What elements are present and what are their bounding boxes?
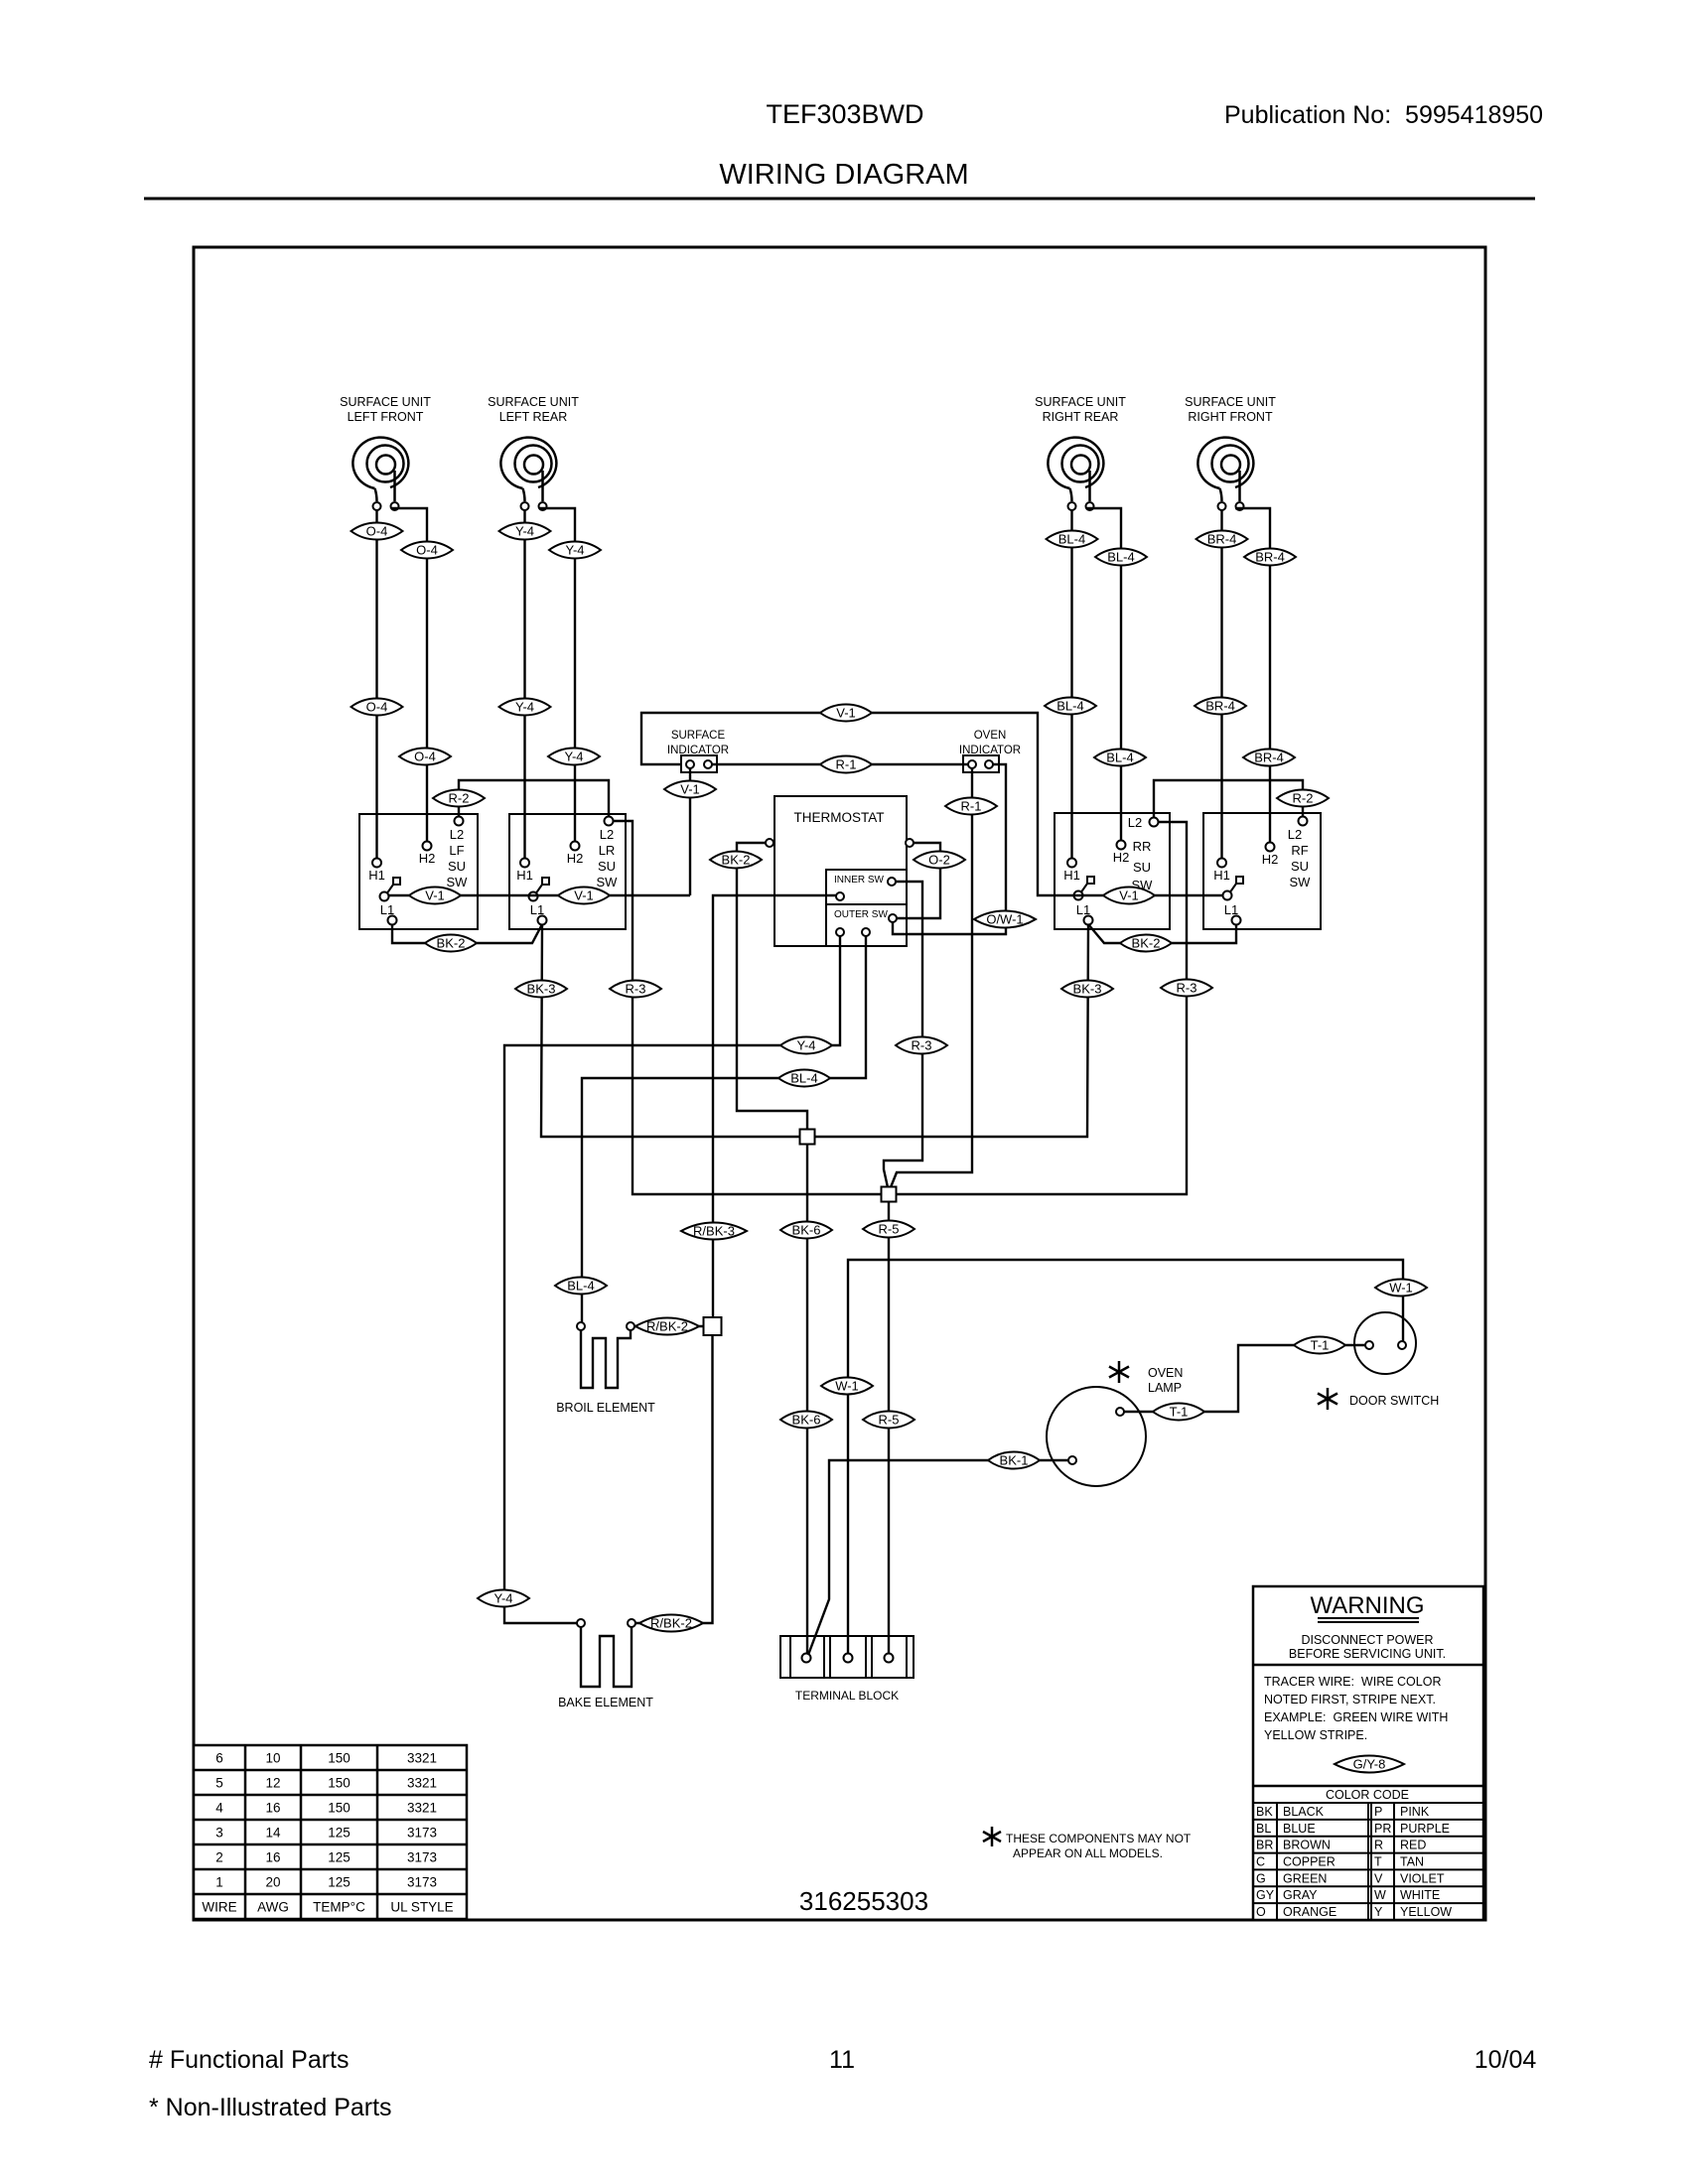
wire label O-4 (LF H1 lower): [352, 698, 403, 715]
svg-text:SU: SU: [1133, 860, 1151, 875]
terminal L2 of RR switch: [1150, 818, 1159, 827]
svg-text:WIRING DIAGRAM: WIRING DIAGRAM: [719, 159, 968, 191]
svg-text:16: 16: [265, 1801, 280, 1816]
svg-text:# Functional Parts: # Functional Parts: [149, 2046, 350, 2074]
wire BK-6 (junction 1 to terminal block): [806, 1144, 808, 1654]
svg-text:150: 150: [328, 1801, 351, 1816]
note asterisk: [983, 1827, 1001, 1846]
terminal oven indicator right: [985, 760, 993, 768]
svg-text:NOTED FIRST, STRIPE NEXT.: NOTED FIRST, STRIPE NEXT.: [1264, 1693, 1436, 1706]
svg-text:16: 16: [265, 1850, 280, 1865]
svg-text:LR: LR: [599, 843, 616, 858]
wire V-1 left run (LF arm to LR arm to SI drop): [388, 894, 690, 896]
terminal H1 of RR switch: [1067, 859, 1076, 868]
svg-text:BK-3: BK-3: [527, 982, 556, 997]
svg-text:SW: SW: [447, 875, 469, 889]
svg-text:BR-4: BR-4: [1205, 699, 1235, 714]
svg-text:DISCONNECT POWER: DISCONNECT POWER: [1301, 1633, 1433, 1647]
wire label Y-4 (LR H1 lower): [499, 698, 551, 715]
terminal H1 of LF switch: [372, 859, 381, 868]
svg-text:H2: H2: [1113, 850, 1130, 865]
svg-text:WHITE: WHITE: [1400, 1888, 1440, 1902]
svg-text:3321: 3321: [407, 1776, 437, 1791]
svg-text:H2: H2: [567, 851, 584, 866]
thermostat box: [774, 796, 907, 946]
svg-text:T: T: [1374, 1855, 1382, 1869]
svg-text:10/04: 10/04: [1475, 2046, 1537, 2074]
svg-text:LF: LF: [449, 843, 464, 858]
wire R-5 (junction 2 to terminal block): [888, 1202, 890, 1654]
svg-text:* Non-Illustrated Parts: * Non-Illustrated Parts: [149, 2094, 392, 2121]
svg-text:3321: 3321: [407, 1751, 437, 1766]
wire R-1 (surface ind to oven ind): [712, 763, 968, 765]
wire RF H2 lead: [1235, 508, 1270, 843]
svg-text:SW: SW: [1290, 875, 1312, 889]
svg-text:R-5: R-5: [879, 1413, 900, 1428]
switch arm pivot LR: [529, 878, 550, 901]
svg-text:V-1: V-1: [1119, 888, 1139, 903]
svg-text:SURFACE UNIT: SURFACE UNIT: [1035, 395, 1126, 409]
svg-text:150: 150: [328, 1776, 351, 1791]
svg-text:H1: H1: [1213, 868, 1230, 883]
wire BK-3 left (L1 LR down): [541, 924, 800, 1137]
wire label R/BK-3: [681, 1222, 747, 1239]
svg-text:RIGHT REAR: RIGHT REAR: [1043, 410, 1119, 424]
wire label T-1 to door switch: [1294, 1336, 1345, 1353]
svg-text:L2: L2: [600, 827, 614, 842]
svg-text:Y-4: Y-4: [565, 543, 584, 558]
junction square 1: [800, 1130, 815, 1145]
svg-text:BL-4: BL-4: [790, 1071, 817, 1086]
terminal door switch left: [1365, 1341, 1373, 1349]
svg-text:BK: BK: [1256, 1805, 1273, 1819]
wire label BL-4 (RR H1 lower): [1045, 697, 1096, 714]
svg-text:V-1: V-1: [574, 888, 594, 903]
svg-text:BK-6: BK-6: [792, 1223, 821, 1238]
svg-text:R-5: R-5: [879, 1222, 900, 1237]
terminal inner sw right: [888, 878, 896, 886]
terminal block terminal 1: [802, 1654, 811, 1663]
terminal L2 of LF switch: [455, 817, 464, 826]
svg-text:O-4: O-4: [366, 700, 388, 715]
svg-text:Y-4: Y-4: [515, 524, 534, 539]
svg-text:R-1: R-1: [961, 799, 982, 814]
switch LF SU SW box: [359, 814, 478, 929]
surface indicator box: [681, 755, 717, 772]
wire label R/BK-2 upper: [635, 1318, 699, 1335]
svg-text:Y-4: Y-4: [564, 750, 583, 764]
surface unit right rear coil: [1035, 395, 1126, 510]
svg-text:L1: L1: [530, 902, 544, 917]
terminal H2 of RR switch: [1117, 841, 1126, 850]
junction square 2: [882, 1187, 897, 1202]
title rule line: [144, 198, 1535, 201]
svg-text:BL-4: BL-4: [567, 1279, 594, 1294]
bake element: [581, 1627, 632, 1687]
svg-text:3173: 3173: [407, 1850, 437, 1865]
wire label O/W-1: [974, 911, 1036, 928]
svg-text:BK-3: BK-3: [1073, 982, 1102, 997]
wire label BK-6 upper: [780, 1221, 832, 1238]
terminal block terminal 3: [885, 1654, 894, 1663]
terminal inner sw left: [836, 892, 844, 900]
wire label R-1 horizontal: [820, 755, 872, 772]
svg-text:BL-4: BL-4: [1107, 550, 1134, 565]
svg-text:BLUE: BLUE: [1283, 1822, 1316, 1836]
terminal broil right: [627, 1322, 634, 1330]
wire inner sw to junction 2: [884, 882, 922, 1187]
svg-text:3: 3: [215, 1826, 223, 1841]
svg-text:LEFT FRONT: LEFT FRONT: [348, 410, 424, 424]
svg-text:R: R: [1374, 1839, 1383, 1852]
svg-text:OVEN: OVEN: [974, 730, 1007, 742]
terminal H2 of RF switch: [1266, 843, 1275, 852]
oven lamp circle: [1047, 1387, 1146, 1486]
svg-text:L1: L1: [380, 902, 394, 917]
wire label V-1 in RR box: [1103, 887, 1155, 903]
svg-text:4: 4: [215, 1801, 223, 1816]
svg-text:L2: L2: [1128, 815, 1142, 830]
wire label BK-3 left: [515, 980, 567, 997]
terminal L2 of RF switch: [1299, 817, 1308, 826]
svg-text:R-3: R-3: [626, 982, 646, 997]
svg-text:RR: RR: [1133, 839, 1152, 854]
svg-text:Publication No: 5995418950: Publication No: 5995418950: [1224, 101, 1543, 129]
svg-text:SU: SU: [1291, 859, 1309, 874]
wire label V-1 in LF box: [409, 887, 461, 903]
svg-text:BEFORE SERVICING UNIT.: BEFORE SERVICING UNIT.: [1289, 1647, 1446, 1661]
svg-text:SURFACE UNIT: SURFACE UNIT: [1185, 395, 1276, 409]
wire O-2 (thermostat right to outer sw): [897, 843, 940, 918]
svg-text:O-2: O-2: [928, 853, 950, 868]
svg-text:ORANGE: ORANGE: [1283, 1905, 1336, 1919]
svg-text:THERMOSTAT: THERMOSTAT: [794, 810, 885, 825]
switch LR SU SW box: [509, 814, 626, 929]
terminal oven indicator left: [968, 760, 976, 768]
svg-text:H1: H1: [516, 868, 533, 883]
svg-text:THESE COMPONENTS MAY NOT: THESE COMPONENTS MAY NOT: [1006, 1832, 1192, 1845]
svg-text:BR: BR: [1256, 1839, 1273, 1852]
svg-text:316255303: 316255303: [799, 1886, 928, 1916]
svg-text:BL-4: BL-4: [1058, 532, 1085, 547]
svg-text:125: 125: [328, 1875, 351, 1890]
wire label BL-4 (RR H2 lower): [1094, 749, 1146, 765]
svg-text:V: V: [1374, 1871, 1383, 1885]
wire label O-4 (LF H2 lower): [399, 748, 451, 764]
wire label BR-4 (RF H1 lower): [1195, 697, 1246, 714]
svg-text:BROIL ELEMENT: BROIL ELEMENT: [556, 1401, 655, 1415]
svg-text:TAN: TAN: [1400, 1855, 1424, 1869]
svg-text:150: 150: [328, 1751, 351, 1766]
terminal thermostat left: [766, 839, 774, 847]
wire label G/Y-8 example: [1335, 1755, 1404, 1772]
svg-text:WARNING: WARNING: [1310, 1592, 1424, 1619]
svg-text:125: 125: [328, 1826, 351, 1841]
wire BK-2 right (L1 RR to L1 RF): [1088, 924, 1236, 943]
door switch circle: [1354, 1312, 1416, 1374]
svg-text:TERMINAL BLOCK: TERMINAL BLOCK: [795, 1689, 899, 1703]
terminal broil left: [577, 1322, 585, 1330]
svg-text:R/BK-2: R/BK-2: [650, 1616, 692, 1631]
svg-text:5: 5: [215, 1776, 223, 1791]
svg-text:125: 125: [328, 1850, 351, 1865]
wire label Y-4 (LR H1 upper): [499, 522, 551, 539]
svg-text:V-1: V-1: [836, 706, 856, 721]
svg-text:AWG: AWG: [257, 1900, 289, 1915]
surface unit left front coil: [340, 395, 431, 510]
terminal oven lamp left: [1068, 1456, 1076, 1464]
svg-text:GRAY: GRAY: [1283, 1888, 1318, 1902]
terminal door switch right: [1398, 1341, 1406, 1349]
svg-text:11: 11: [829, 2046, 855, 2074]
svg-text:L1: L1: [1224, 902, 1238, 917]
terminal bake left: [577, 1619, 585, 1627]
svg-text:INNER SW: INNER SW: [834, 875, 885, 886]
svg-text:BL: BL: [1256, 1822, 1271, 1836]
terminal bake right: [628, 1619, 635, 1627]
svg-text:BROWN: BROWN: [1283, 1839, 1331, 1852]
wire label BK-2 right: [1120, 934, 1172, 951]
svg-text:EXAMPLE: GREEN WIRE WITH: EXAMPLE: GREEN WIRE WITH: [1264, 1710, 1448, 1724]
broil element: [581, 1330, 631, 1388]
svg-text:TEMP°C: TEMP°C: [313, 1900, 365, 1915]
wire label R-3 left: [610, 980, 661, 997]
svg-text:3321: 3321: [407, 1801, 437, 1816]
svg-text:UL STYLE: UL STYLE: [390, 1900, 453, 1915]
wire label R-3 right: [1161, 979, 1212, 996]
svg-text:Y: Y: [1374, 1905, 1383, 1919]
wire label Y-4 mid: [780, 1036, 832, 1053]
terminal surface indicator left: [686, 760, 694, 768]
wire R/BK-2 (broil to junction 3): [634, 1325, 703, 1327]
svg-text:RED: RED: [1400, 1839, 1426, 1852]
svg-text:SURFACE UNIT: SURFACE UNIT: [488, 395, 579, 409]
wire LF H1 lead: [375, 510, 377, 859]
svg-text:H1: H1: [1063, 868, 1080, 883]
terminal block dividers: [789, 1636, 791, 1678]
svg-text:WIRE: WIRE: [202, 1900, 236, 1915]
svg-text:PURPLE: PURPLE: [1400, 1822, 1450, 1836]
svg-text:RIGHT FRONT: RIGHT FRONT: [1188, 410, 1273, 424]
wire BL-4 (outer sw to broil element): [582, 936, 866, 1322]
diagram border frame: [194, 247, 1485, 1920]
svg-text:VIOLET: VIOLET: [1400, 1871, 1445, 1885]
svg-text:O: O: [1256, 1905, 1266, 1919]
svg-text:14: 14: [265, 1826, 281, 1841]
terminal L2 of LR switch: [605, 817, 614, 826]
svg-text:BL-4: BL-4: [1106, 751, 1133, 765]
wire RR H1 lead: [1070, 510, 1072, 859]
oven indicator box: [963, 755, 999, 772]
wire label BK-3 right: [1061, 980, 1113, 997]
wire label BR-4 (RF H1 upper): [1196, 530, 1248, 547]
svg-text:R/BK-3: R/BK-3: [693, 1224, 735, 1239]
svg-text:20: 20: [265, 1875, 280, 1890]
svg-text:SU: SU: [598, 859, 616, 874]
svg-text:BL-4: BL-4: [1056, 699, 1083, 714]
wire label V-1 in LR box: [558, 887, 610, 903]
svg-text:L2: L2: [1288, 827, 1302, 842]
junction square 3: [704, 1317, 722, 1335]
svg-text:R-3: R-3: [1177, 981, 1197, 996]
svg-text:RF: RF: [1291, 843, 1308, 858]
terminal L1 of LF switch: [388, 916, 397, 925]
svg-text:2: 2: [215, 1850, 223, 1865]
wire LR H1 lead: [523, 510, 525, 859]
svg-text:OVEN: OVEN: [1148, 1366, 1183, 1380]
svg-text:R-3: R-3: [912, 1038, 932, 1053]
surface unit left rear coil: [488, 395, 579, 510]
oven lamp asterisk: [1109, 1361, 1129, 1383]
svg-text:3173: 3173: [407, 1875, 437, 1890]
wire label BR-4 (RF H2 upper): [1244, 548, 1296, 565]
wire R/BK-2 (bake to junction drop): [635, 1622, 708, 1624]
wire label R-3 on inner sw wire: [896, 1036, 947, 1053]
terminal outer sw right: [889, 914, 897, 922]
svg-text:BK-2: BK-2: [1132, 936, 1161, 951]
svg-text:3173: 3173: [407, 1826, 437, 1841]
svg-text:SURFACE: SURFACE: [671, 730, 726, 742]
svg-text:L2: L2: [450, 827, 464, 842]
svg-text:BR-4: BR-4: [1255, 550, 1285, 565]
svg-text:P: P: [1374, 1805, 1382, 1819]
wire label R-1 vertical: [945, 797, 997, 814]
svg-text:G: G: [1256, 1871, 1266, 1885]
svg-text:R-2: R-2: [1293, 791, 1314, 806]
wire T-1 (oven lamp to door switch): [1124, 1345, 1365, 1412]
svg-text:YELLOW: YELLOW: [1400, 1905, 1452, 1919]
svg-text:L1: L1: [1076, 902, 1090, 917]
wire V-1 vertical to surface indicator: [689, 768, 691, 895]
svg-text:YELLOW STRIPE.: YELLOW STRIPE.: [1264, 1728, 1367, 1742]
svg-text:W-1: W-1: [1389, 1281, 1413, 1296]
terminal L1 of LR switch: [538, 916, 547, 925]
wire label BL-4 low: [555, 1277, 607, 1294]
wire BK-3 right (L1 RR down): [814, 924, 1088, 1137]
wire label Y-4 low: [478, 1589, 529, 1606]
svg-text:BAKE ELEMENT: BAKE ELEMENT: [558, 1696, 653, 1709]
svg-text:TEF303BWD: TEF303BWD: [766, 99, 923, 129]
warning box: [1253, 1586, 1483, 1920]
svg-text:COLOR CODE: COLOR CODE: [1326, 1788, 1409, 1802]
svg-text:H1: H1: [368, 868, 385, 883]
surface unit right front coil: [1185, 395, 1276, 510]
wire label R-2 left: [433, 789, 485, 806]
svg-text:BK-2: BK-2: [437, 936, 466, 951]
terminal H1 of RF switch: [1217, 859, 1226, 868]
switch RF SU SW box: [1203, 813, 1321, 929]
wire R-2 right (L2 RR to L2 RF): [1154, 780, 1303, 818]
wire label O-4 (LF H2 upper): [401, 541, 453, 558]
wire label BK-6 lower: [780, 1411, 832, 1428]
switch arm pivot RR: [1074, 877, 1095, 900]
wire label R-5 upper: [863, 1220, 914, 1237]
thermostat inner/outer switch sub-box: [826, 870, 907, 946]
svg-text:1: 1: [215, 1875, 223, 1890]
wire label R-5 lower: [863, 1411, 914, 1428]
svg-text:OUTER SW: OUTER SW: [834, 909, 888, 920]
svg-text:Y-4: Y-4: [515, 700, 534, 715]
svg-text:10: 10: [265, 1751, 280, 1766]
svg-text:GREEN: GREEN: [1283, 1871, 1327, 1885]
terminal H1 of LR switch: [520, 859, 529, 868]
svg-text:V-1: V-1: [425, 888, 445, 903]
svg-text:W: W: [1374, 1888, 1386, 1902]
svg-text:V-1: V-1: [680, 782, 700, 797]
wire V-1 bridge: [641, 713, 1223, 895]
switch arm pivot LF: [380, 878, 401, 901]
wire label R/BK-2 lower: [639, 1615, 703, 1632]
svg-text:T-1: T-1: [1311, 1338, 1330, 1353]
wire label BL-4 (RR H1 upper): [1047, 530, 1098, 547]
svg-text:H2: H2: [419, 851, 436, 866]
svg-text:O-4: O-4: [414, 750, 436, 764]
svg-text:BK-1: BK-1: [1000, 1453, 1029, 1468]
terminal oven lamp right: [1116, 1408, 1124, 1416]
wire RR H2 lead: [1086, 508, 1121, 841]
svg-text:6: 6: [215, 1751, 223, 1766]
terminal H2 of LR switch: [571, 842, 580, 851]
svg-text:GY: GY: [1256, 1888, 1275, 1902]
svg-text:R-2: R-2: [449, 791, 470, 806]
wire R/BK-3 (inner sw to broil junction): [713, 895, 836, 1316]
svg-text:C: C: [1256, 1855, 1265, 1869]
svg-text:TRACER WIRE: WIRE COLOR: TRACER WIRE: WIRE COLOR: [1264, 1675, 1441, 1689]
svg-text:Y-4: Y-4: [796, 1038, 815, 1053]
wire LR H2 lead: [539, 508, 575, 842]
wire label BR-4 (RF H2 lower): [1243, 749, 1295, 765]
svg-text:SU: SU: [448, 859, 466, 874]
terminal outer sw bottom 1: [836, 928, 844, 936]
svg-text:BR-4: BR-4: [1207, 532, 1237, 547]
switch arm pivot RF: [1223, 877, 1244, 900]
wire LF H2 lead: [391, 508, 427, 842]
wire label W-1 left: [821, 1377, 873, 1394]
svg-text:BK-6: BK-6: [792, 1413, 821, 1428]
svg-text:T-1: T-1: [1170, 1405, 1189, 1420]
svg-text:O-4: O-4: [416, 543, 438, 558]
wire label BL-4 (RR H2 upper): [1095, 548, 1147, 565]
wire RF H1 lead: [1220, 510, 1222, 859]
svg-text:PR: PR: [1374, 1822, 1391, 1836]
wire label Y-4 (LR H2 upper): [549, 541, 601, 558]
wire label W-1 right: [1375, 1279, 1427, 1296]
terminal thermostat right: [906, 839, 914, 847]
wire label O-2: [914, 851, 965, 868]
svg-text:H2: H2: [1262, 852, 1279, 867]
svg-text:COPPER: COPPER: [1283, 1855, 1336, 1869]
svg-text:R/BK-2: R/BK-2: [646, 1319, 688, 1334]
svg-text:LAMP: LAMP: [1148, 1381, 1182, 1395]
wire BK-2 left (L1 LF to L1 LR): [392, 924, 542, 943]
terminal L1 of RR switch: [1084, 916, 1093, 925]
svg-text:APPEAR ON ALL MODELS.: APPEAR ON ALL MODELS.: [1013, 1846, 1163, 1860]
svg-text:SW: SW: [597, 875, 619, 889]
svg-text:Y-4: Y-4: [493, 1591, 512, 1606]
svg-text:O-4: O-4: [366, 524, 388, 539]
wire label BK-2 left: [425, 934, 477, 951]
svg-text:R-1: R-1: [836, 757, 857, 772]
wire element junction drop: [708, 1335, 713, 1623]
wire R-1 drop from oven indicator: [891, 768, 972, 1187]
terminal outer sw bottom 2: [862, 928, 870, 936]
svg-text:BLACK: BLACK: [1283, 1805, 1325, 1819]
terminal L1 of RF switch: [1232, 916, 1241, 925]
terminal block terminal 2: [844, 1654, 853, 1663]
svg-text:DOOR SWITCH: DOOR SWITCH: [1349, 1394, 1439, 1408]
wire gauge table: [194, 1745, 467, 1919]
wire R-2 left (L2 LF to L2 LR): [459, 780, 609, 817]
